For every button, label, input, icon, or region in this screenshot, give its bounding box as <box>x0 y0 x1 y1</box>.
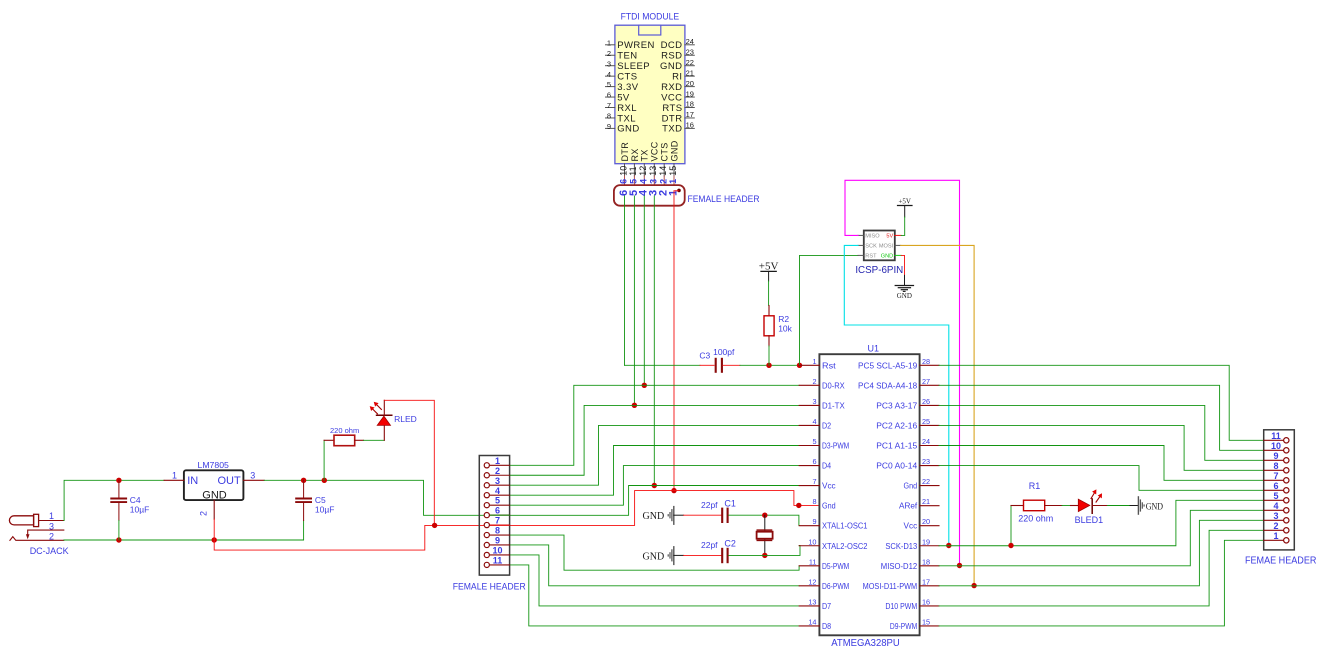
svg-text:SCK-D13: SCK-D13 <box>885 541 917 551</box>
svg-text:3: 3 <box>49 521 54 531</box>
svg-text:Gnd: Gnd <box>904 481 918 491</box>
svg-text:D10 PWM: D10 PWM <box>885 601 917 611</box>
right header pin 9 stub <box>1264 459 1284 461</box>
svg-text:MOSI-D11-PWM: MOSI-D11-PWM <box>863 581 918 591</box>
FTDI pin 21 stub (right) <box>685 75 694 77</box>
svg-text:RX: RX <box>630 148 640 161</box>
crystal Q1 lead <box>764 515 766 555</box>
svg-text:16: 16 <box>686 121 694 130</box>
left header pin 11 circle <box>484 562 489 567</box>
junction ATMEGA pin8 corner <box>796 503 801 508</box>
wire RLED top to Gnd net <box>384 400 434 525</box>
crystal Q1 body <box>757 532 773 539</box>
junction crystal top <box>762 513 767 518</box>
capacitor C2 plates <box>721 548 723 563</box>
resistor 220 ohm (RLED) body <box>334 435 355 446</box>
svg-text:D2: D2 <box>822 420 831 430</box>
svg-text:+5V: +5V <box>759 260 779 272</box>
U1 pin 21 stub <box>920 505 939 507</box>
left header pin 10 circle <box>484 552 489 557</box>
svg-text:13: 13 <box>808 597 816 606</box>
DC-JACK plate <box>34 514 39 526</box>
wire left header pin10 to ATMEGA pin13 (D7) <box>510 555 800 606</box>
FTDI bottom pin 13 stub <box>653 164 655 176</box>
svg-text:10k: 10k <box>778 323 792 333</box>
junction 220ohm branch <box>322 478 327 483</box>
FTDI bottom pin 15 stub <box>673 164 675 176</box>
right header pin 5 stub <box>1264 499 1284 501</box>
right header pin 4 circle <box>1284 508 1289 513</box>
wire from +5V rail up to 220ohm resistor <box>323 440 325 480</box>
junction LM7805 GND <box>212 537 217 542</box>
svg-text:2: 2 <box>49 532 54 542</box>
svg-text:OUT: OUT <box>217 475 241 487</box>
left header pin 4 stub <box>489 494 509 496</box>
svg-text:MISO-D12: MISO-D12 <box>881 561 918 571</box>
wire Gnd overlay through left header pin7 <box>489 524 509 526</box>
resistor 220 ohm (RLED) left lead <box>324 439 334 441</box>
wire Gnd net from LM7805 pin2 to ATMEGA pin8 <box>214 491 819 550</box>
junction RX/D1-TX <box>632 403 637 408</box>
svg-text:6: 6 <box>495 506 500 516</box>
wire +5V to R2 <box>768 281 770 306</box>
U1 pin 15 stub <box>920 625 939 627</box>
svg-text:15: 15 <box>922 617 930 626</box>
ICSP-6PIN body <box>864 231 895 261</box>
capacitor C4 plates <box>110 498 127 500</box>
svg-text:10µF: 10µF <box>315 504 335 514</box>
left header pin 4 circle <box>484 493 489 498</box>
resistor R2 bottom lead <box>768 336 770 346</box>
LED BLED1 cathode lead <box>1092 505 1107 507</box>
svg-text:3: 3 <box>812 397 816 406</box>
svg-text:2: 2 <box>812 377 816 386</box>
svg-text:PC3 A3-17: PC3 A3-17 <box>876 400 917 410</box>
svg-text:D6-PWM: D6-PWM <box>822 581 849 591</box>
svg-text:10: 10 <box>492 546 502 556</box>
IC U1 ATMEGA328PU body <box>819 354 919 635</box>
svg-text:13: 13 <box>648 166 658 176</box>
FTDI pin 7 stub (left) <box>606 107 615 109</box>
FTDI pin 24 stub (right) <box>685 44 694 46</box>
junction ICSP RST branch <box>797 363 802 368</box>
svg-text:2: 2 <box>495 466 500 476</box>
svg-text:10µF: 10µF <box>130 504 150 514</box>
svg-text:22pf: 22pf <box>701 540 718 550</box>
wire left header pin2 to ATMEGA pin3 <box>510 405 800 475</box>
wire C2 to XTAL2 (ATMEGA pin10) <box>729 546 800 556</box>
svg-text:FEMALE HEADER: FEMALE HEADER <box>453 582 526 593</box>
LM7805 pin 3 lead <box>243 479 264 481</box>
left header pin 9 circle <box>484 542 489 547</box>
svg-text:8: 8 <box>1273 461 1278 471</box>
LED RLED anode lead <box>383 425 385 440</box>
svg-text:FEMAE HEADER: FEMAE HEADER <box>1245 556 1317 567</box>
wire left header pin5 to ATMEGA pin6 <box>510 466 800 506</box>
junction VCC/Vcc <box>652 483 657 488</box>
svg-text:3: 3 <box>649 179 659 184</box>
LED BLED1 cathode bar <box>1091 498 1093 514</box>
wire U1 pin17 MOSI-D11 to right header pin3 <box>939 520 1264 586</box>
svg-text:GND: GND <box>202 489 227 501</box>
left header pin 2 stub <box>489 474 509 476</box>
U1 pin 18 stub <box>920 565 939 567</box>
svg-text:Vcc: Vcc <box>904 521 918 531</box>
wire U1 pin27 to right header pin10 <box>939 385 1264 450</box>
svg-text:6: 6 <box>619 179 629 184</box>
svg-text:3: 3 <box>1273 511 1278 521</box>
svg-text:D1-TX: D1-TX <box>822 400 845 410</box>
left header pin 6 circle <box>484 513 489 518</box>
svg-text:RST: RST <box>865 254 877 260</box>
svg-text:PC5 SCL-A5-19: PC5 SCL-A5-19 <box>858 360 917 370</box>
U1 pin 6 stub <box>799 465 819 467</box>
svg-text:5: 5 <box>629 179 639 184</box>
svg-text:PC1 A1-15: PC1 A1-15 <box>876 441 917 451</box>
wire RX from header pin5 to D1-TX net <box>633 196 635 405</box>
right header pin 1 stub <box>1264 539 1284 541</box>
svg-text:10: 10 <box>1271 441 1281 451</box>
FTDI pin 22 stub (right) <box>685 65 694 67</box>
U1 pin 10 stub <box>799 545 819 547</box>
svg-text:6: 6 <box>812 457 816 466</box>
U1 pin 25 stub <box>920 424 939 426</box>
wire GND to C2 <box>684 554 722 556</box>
svg-text:7: 7 <box>1273 471 1278 481</box>
wire U1 pin16 D10 to right header pin2 <box>939 530 1264 606</box>
U1 pin 16 stub <box>920 605 939 607</box>
svg-text:Rst: Rst <box>822 360 836 370</box>
svg-text:21: 21 <box>922 497 930 506</box>
left header pin 1 stub <box>489 464 509 466</box>
svg-text:2: 2 <box>199 511 209 516</box>
svg-text:28: 28 <box>922 357 930 366</box>
wire U1 pin19 SCK-D13 to right header pin5 <box>939 500 1264 545</box>
svg-text:24: 24 <box>922 437 930 446</box>
svg-text:IN: IN <box>187 475 198 487</box>
U1 pin 27 stub <box>920 384 939 386</box>
capacitor C5 plates <box>295 498 312 500</box>
wire left header pin4 to ATMEGA pin5 <box>510 446 800 496</box>
wire U1 pin26 to right header pin9 <box>939 405 1264 460</box>
svg-text:4: 4 <box>495 486 500 496</box>
svg-text:19: 19 <box>686 89 694 98</box>
svg-text:D3-PWM: D3-PWM <box>822 441 849 451</box>
junction MISO <box>957 563 962 568</box>
junction C5 top <box>301 478 306 483</box>
svg-text:RXD: RXD <box>661 82 682 93</box>
DC-JACK barrel <box>9 516 33 525</box>
svg-text:C5: C5 <box>315 495 326 505</box>
wire GND to C1 <box>684 514 722 516</box>
capacitor C5 leads <box>303 480 305 497</box>
svg-text:19: 19 <box>922 537 930 546</box>
svg-text:17: 17 <box>686 110 694 119</box>
svg-text:MISO: MISO <box>865 234 880 240</box>
female header (left, 11-pin) body <box>479 456 509 576</box>
female header (right, FEMAE) body <box>1264 430 1295 550</box>
U1 pin 5 stub <box>799 445 819 447</box>
capacitor C3 plates <box>715 358 717 373</box>
svg-text:TEN: TEN <box>617 51 637 62</box>
voltage regulator LM7805 body <box>184 470 244 500</box>
svg-text:ICSP-6PIN: ICSP-6PIN <box>855 265 903 276</box>
right header pin 7 stub <box>1264 479 1284 481</box>
FTDI bottom pin 12 stub <box>643 164 645 176</box>
svg-text:14: 14 <box>658 166 668 176</box>
female header pin1 marker dot <box>677 189 681 193</box>
svg-text:1: 1 <box>495 456 500 466</box>
svg-text:3: 3 <box>607 59 611 68</box>
junction SCK <box>946 543 951 548</box>
crystal Q1 plates <box>757 529 773 531</box>
svg-text:26: 26 <box>922 397 930 406</box>
svg-text:25: 25 <box>922 417 930 426</box>
left header pin 3 circle <box>484 483 489 488</box>
svg-text:1: 1 <box>607 38 611 47</box>
svg-text:RI: RI <box>672 71 682 82</box>
junction R2 bottom <box>766 363 771 368</box>
LM7805 pin 1 lead <box>164 479 184 481</box>
svg-text:10: 10 <box>808 537 816 546</box>
svg-text:23: 23 <box>922 457 930 466</box>
svg-text:18: 18 <box>922 557 930 566</box>
U1 pin 14 stub <box>799 625 819 627</box>
svg-text:DC-JACK: DC-JACK <box>30 546 69 556</box>
wire +V from DC-JACK pin1 up to top rail <box>64 480 164 520</box>
svg-text:11: 11 <box>628 166 638 175</box>
wire R1 to BLED1 <box>1062 505 1071 507</box>
wire GND from header pin1 to Gnd net <box>673 191 675 491</box>
svg-text:RSD: RSD <box>661 51 682 62</box>
svg-text:U1: U1 <box>868 344 880 354</box>
right header pin 11 circle <box>1284 438 1289 443</box>
wire left header pin3 to ATMEGA pin4 <box>510 425 800 485</box>
svg-text:VCC: VCC <box>650 141 660 161</box>
left header pin 7 circle <box>484 522 489 527</box>
left header pin 1 circle <box>484 463 489 468</box>
FTDI pin 16 stub (right) <box>685 127 694 129</box>
svg-text:100pf: 100pf <box>713 347 735 357</box>
svg-text:1: 1 <box>172 470 177 480</box>
svg-text:9: 9 <box>607 122 611 131</box>
wire GND bottom rail from DC-JACK pin2 <box>64 521 304 541</box>
svg-text:5: 5 <box>1273 491 1278 501</box>
svg-text:8: 8 <box>812 497 816 506</box>
resistor R1 body <box>1024 500 1045 511</box>
wire MISO (magenta) ICSP to ATMEGA MISO-D12 <box>845 180 960 565</box>
wire R2 to Rst net <box>768 346 770 365</box>
svg-text:8: 8 <box>495 526 500 536</box>
svg-text:9: 9 <box>495 536 500 546</box>
svg-text:3: 3 <box>495 476 500 486</box>
right header pin 7 circle <box>1284 478 1289 483</box>
svg-text:D8: D8 <box>822 621 831 631</box>
capacitor C4 leads <box>118 480 120 497</box>
U1 pin 3 stub <box>799 404 819 406</box>
left header pin 9 stub <box>489 544 509 546</box>
ground symbol GND (BLED1) <box>1130 505 1138 507</box>
svg-text:15: 15 <box>668 166 678 176</box>
U1 pin 28 stub <box>920 364 939 366</box>
svg-text:TXL: TXL <box>617 113 636 124</box>
junction C4 bottom <box>116 537 121 542</box>
resistor 220 ohm (RLED) right lead <box>355 439 364 441</box>
FTDI pin 8 stub (left) <box>606 117 615 119</box>
svg-text:3: 3 <box>250 470 255 480</box>
ICSP 5V pin stub <box>895 234 901 236</box>
wire DTR from header pin6 to C3/Rst net <box>624 196 626 365</box>
svg-text:22: 22 <box>922 477 930 486</box>
FTDI pin 9 stub (left) <box>606 127 615 129</box>
wire C1 to XTAL1 (ATMEGA pin9) <box>729 515 800 525</box>
svg-text:4: 4 <box>607 70 611 79</box>
svg-text:PC2 A2-16: PC2 A2-16 <box>876 420 917 430</box>
U1 pin 4 stub <box>799 424 819 426</box>
svg-text:GND: GND <box>1146 503 1163 513</box>
ICSP pin stubs left <box>858 234 864 236</box>
svg-text:2: 2 <box>1273 521 1278 531</box>
svg-text:220 ohm: 220 ohm <box>330 426 359 435</box>
FTDI pin 20 stub (right) <box>685 86 694 88</box>
right header pin 10 stub <box>1264 449 1284 451</box>
left header pin 10 stub <box>489 554 509 556</box>
wire ICSP RST to ATMEGA Rst <box>800 255 859 365</box>
svg-text:DTR: DTR <box>620 142 630 162</box>
svg-text:27: 27 <box>922 377 930 386</box>
svg-text:LM7805: LM7805 <box>197 460 229 470</box>
svg-text:PC0 A0-14: PC0 A0-14 <box>876 461 917 471</box>
right header pin 10 circle <box>1284 448 1289 453</box>
wire left header pin11 to ATMEGA pin14 (D8) <box>510 565 800 626</box>
ICSP GND stub <box>895 254 901 256</box>
wire left header pin9 to ATMEGA pin12 (D6-PWM) <box>510 545 800 586</box>
wire U1 pin23 to right header pin6 <box>939 466 1264 491</box>
svg-text:XTAL1-OSC1: XTAL1-OSC1 <box>822 521 868 531</box>
FTDI pin 6 stub (left) <box>606 96 615 98</box>
svg-text:+5V: +5V <box>898 198 911 206</box>
wire SCK (cyan) ICSP to ATMEGA SCK-D13 <box>844 245 949 545</box>
svg-text:XTAL2-OSC2: XTAL2-OSC2 <box>822 541 868 551</box>
svg-text:16: 16 <box>922 597 930 606</box>
svg-text:9: 9 <box>812 517 816 526</box>
svg-text:3.3V: 3.3V <box>617 82 639 93</box>
FTDI bottom pin 14 stub <box>663 164 665 176</box>
wire BLED1 to ground <box>1108 505 1131 507</box>
U1 pin 26 stub <box>920 404 939 406</box>
svg-text:5: 5 <box>495 496 500 506</box>
U1 pin 1 stub <box>799 364 819 366</box>
svg-text:Vcc: Vcc <box>822 481 836 491</box>
svg-text:220 ohm: 220 ohm <box>1018 514 1053 524</box>
LED BLED1 arrows <box>1091 493 1100 503</box>
wire TX from header pin4 to D0-RX net <box>643 196 645 385</box>
wire Rst net: header DTR to C3 <box>625 364 701 366</box>
svg-text:RXL: RXL <box>617 103 637 114</box>
svg-text:GND: GND <box>643 511 665 522</box>
svg-text:11: 11 <box>809 557 817 566</box>
junction TX/D0-RX <box>642 383 647 388</box>
U1 pin 9 stub <box>799 525 819 527</box>
wire VCC from header pin3 to Vcc net <box>653 196 655 486</box>
svg-text:TX: TX <box>640 149 650 161</box>
U1 pin 11 stub <box>799 565 819 567</box>
FTDI pin 17 stub (right) <box>685 117 694 119</box>
right header pin 4 stub <box>1264 509 1284 511</box>
wire Vcc overlay through left header pin6 <box>489 514 509 516</box>
U1 pin 24 stub <box>920 445 939 447</box>
svg-text:7: 7 <box>607 101 611 110</box>
svg-text:7: 7 <box>812 477 816 486</box>
right header pin 2 stub <box>1264 529 1284 531</box>
svg-text:17: 17 <box>922 577 930 586</box>
LED RLED cathode lead <box>383 400 385 415</box>
right header pin 1 circle <box>1284 538 1289 543</box>
FTDI module notch <box>639 25 661 35</box>
svg-text:SLEEP: SLEEP <box>617 61 650 72</box>
FTDI pin 4 stub (left) <box>606 75 615 77</box>
svg-text:2: 2 <box>607 49 611 58</box>
junction C4 top <box>116 478 121 483</box>
right header pin 6 circle <box>1284 488 1289 493</box>
wire ICSP GND to ground <box>901 255 904 275</box>
left header pin 3 stub <box>489 484 509 486</box>
DC-JACK pin 2 (sleeve) <box>10 537 64 541</box>
svg-text:5V: 5V <box>617 92 630 103</box>
resistor R2 body <box>764 316 774 336</box>
svg-text:11: 11 <box>1271 431 1281 441</box>
left header pin 7 stub <box>489 524 509 526</box>
svg-text:GND: GND <box>643 551 665 562</box>
left header pin 8 circle <box>484 532 489 537</box>
FTDI module body <box>615 25 685 164</box>
wire +5V rail from LM7805 OUT <box>264 480 799 515</box>
ICSP MOSI stub <box>895 244 901 246</box>
svg-text:6: 6 <box>607 91 611 100</box>
junction MOSI <box>971 583 976 588</box>
wire MOSI (orange) ICSP to ATMEGA MOSI-D11 <box>901 245 974 585</box>
svg-text:TXD: TXD <box>662 124 682 135</box>
svg-text:C4: C4 <box>130 495 141 505</box>
FTDI pin 23 stub (right) <box>685 54 694 56</box>
svg-text:20: 20 <box>922 517 930 526</box>
svg-text:14: 14 <box>808 617 816 626</box>
svg-text:D7: D7 <box>822 601 831 611</box>
wire U1 pin24 to right header pin7 <box>939 446 1264 481</box>
svg-text:GND: GND <box>617 124 639 135</box>
left header pin 11 stub <box>489 564 509 566</box>
svg-text:SCK: SCK <box>865 244 877 250</box>
U1 pin 2 stub <box>799 384 819 386</box>
wire +5V to ICSP 5V pin <box>901 217 905 235</box>
left header pin 2 circle <box>484 473 489 478</box>
right header pin 9 circle <box>1284 458 1289 463</box>
right header pin 3 circle <box>1284 518 1289 523</box>
right header pin 2 circle <box>1284 528 1289 533</box>
svg-text:ATMEGA328PU: ATMEGA328PU <box>831 638 900 649</box>
svg-text:1: 1 <box>1273 531 1278 541</box>
female header (FTDI) body <box>614 185 685 206</box>
FTDI pin 18 stub (right) <box>685 107 694 109</box>
U1 pin 22 stub <box>920 485 939 487</box>
svg-text:9: 9 <box>1273 451 1278 461</box>
svg-text:24: 24 <box>686 37 694 46</box>
svg-text:4: 4 <box>639 179 649 184</box>
svg-text:5: 5 <box>607 80 611 89</box>
svg-text:PC4 SDA-A4-18: PC4 SDA-A4-18 <box>858 380 917 390</box>
svg-text:D9-PWM: D9-PWM <box>890 621 917 631</box>
svg-text:8: 8 <box>607 112 611 121</box>
